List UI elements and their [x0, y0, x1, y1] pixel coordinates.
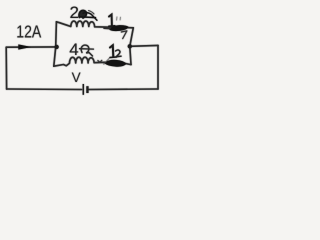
- battery cell: long plate: [82, 84, 84, 95]
- scribble blob on bottom wire (1-ohm element): [105, 59, 127, 67]
- faint tick marks right of the 1: [117, 17, 121, 21]
- handwritten 2 squiggle (subscript): [116, 50, 122, 57]
- wire: arrow feed wire: [6, 46, 56, 48]
- node A junction dot: [54, 45, 58, 49]
- wire: box right edge: [130, 28, 134, 65]
- small tick after bottom resistor: [98, 60, 103, 62]
- wire: bottom left (to battery): [7, 88, 82, 91]
- node B junction dot: [128, 44, 132, 48]
- stray pencil stroke below bottom 1: [104, 58, 110, 65]
- handwritten 1 (top-right element): [109, 15, 115, 27]
- stray curl under top blob: [121, 31, 127, 39]
- handwritten ohm after 4: [80, 45, 94, 56]
- battery cell: short thick plate: [86, 86, 88, 93]
- svg-text:2: 2: [70, 3, 79, 22]
- wire: bottom right (from battery): [89, 88, 158, 91]
- scribble blob on top wire (1-ohm element): [109, 25, 129, 32]
- svg-text:12A: 12A: [16, 22, 41, 42]
- wire: left outer vertical: [5, 47, 7, 89]
- wire: top-right horizontal (node B to outer loop): [130, 44, 158, 47]
- wire: box bottom edge + resistor R2 body: [54, 57, 131, 66]
- wire: box left edge: [54, 22, 57, 66]
- wire: box top edge left + resistor R1 body: [56, 21, 133, 28]
- current arrow head: [18, 44, 31, 49]
- handwritten 1 (bottom-right element): [110, 45, 117, 57]
- wire: right outer vertical: [157, 45, 159, 89]
- svg-text:V: V: [72, 70, 81, 85]
- scribbled ohm symbol after 2: [79, 10, 97, 20]
- svg-text:4: 4: [69, 40, 78, 59]
